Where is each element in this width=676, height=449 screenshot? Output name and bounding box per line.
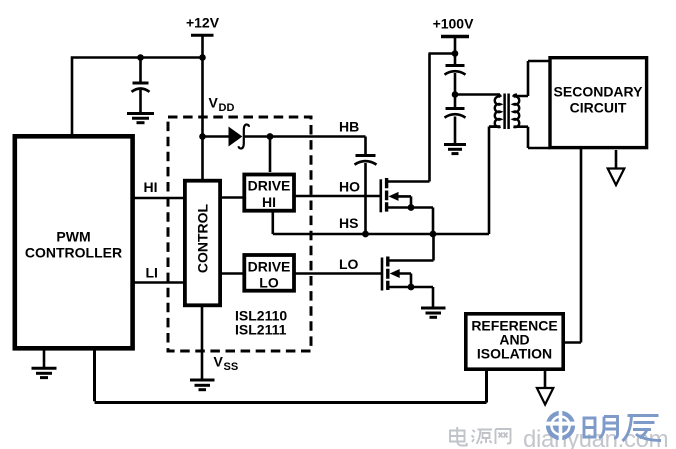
svg-text:HI: HI	[144, 179, 158, 195]
svg-text:SS: SS	[224, 361, 239, 373]
svg-text:PWM: PWM	[56, 229, 90, 245]
svg-text:CIRCUIT: CIRCUIT	[570, 100, 627, 116]
svg-text:CONTROLLER: CONTROLLER	[25, 245, 122, 261]
svg-text:DRIVE: DRIVE	[248, 178, 291, 194]
svg-text:LO: LO	[259, 275, 279, 291]
svg-text:HO: HO	[339, 179, 360, 195]
svg-text:DD: DD	[219, 102, 235, 114]
svg-text:ISL2111: ISL2111	[235, 322, 287, 338]
svg-text:HI: HI	[262, 194, 276, 210]
svg-text:HS: HS	[339, 215, 358, 231]
svg-text:DRIVE: DRIVE	[248, 259, 291, 275]
svg-text:+12V: +12V	[186, 15, 220, 31]
svg-text:LI: LI	[146, 265, 158, 281]
svg-text:CONTROL: CONTROL	[195, 203, 211, 273]
svg-text:HB: HB	[339, 119, 359, 135]
svg-text:V: V	[209, 95, 219, 111]
svg-text:LO: LO	[339, 256, 359, 272]
svg-text:SECONDARY: SECONDARY	[554, 84, 644, 100]
svg-text:+100V: +100V	[433, 16, 475, 32]
svg-text:ISOLATION: ISOLATION	[477, 346, 552, 362]
svg-text:V: V	[214, 354, 224, 370]
